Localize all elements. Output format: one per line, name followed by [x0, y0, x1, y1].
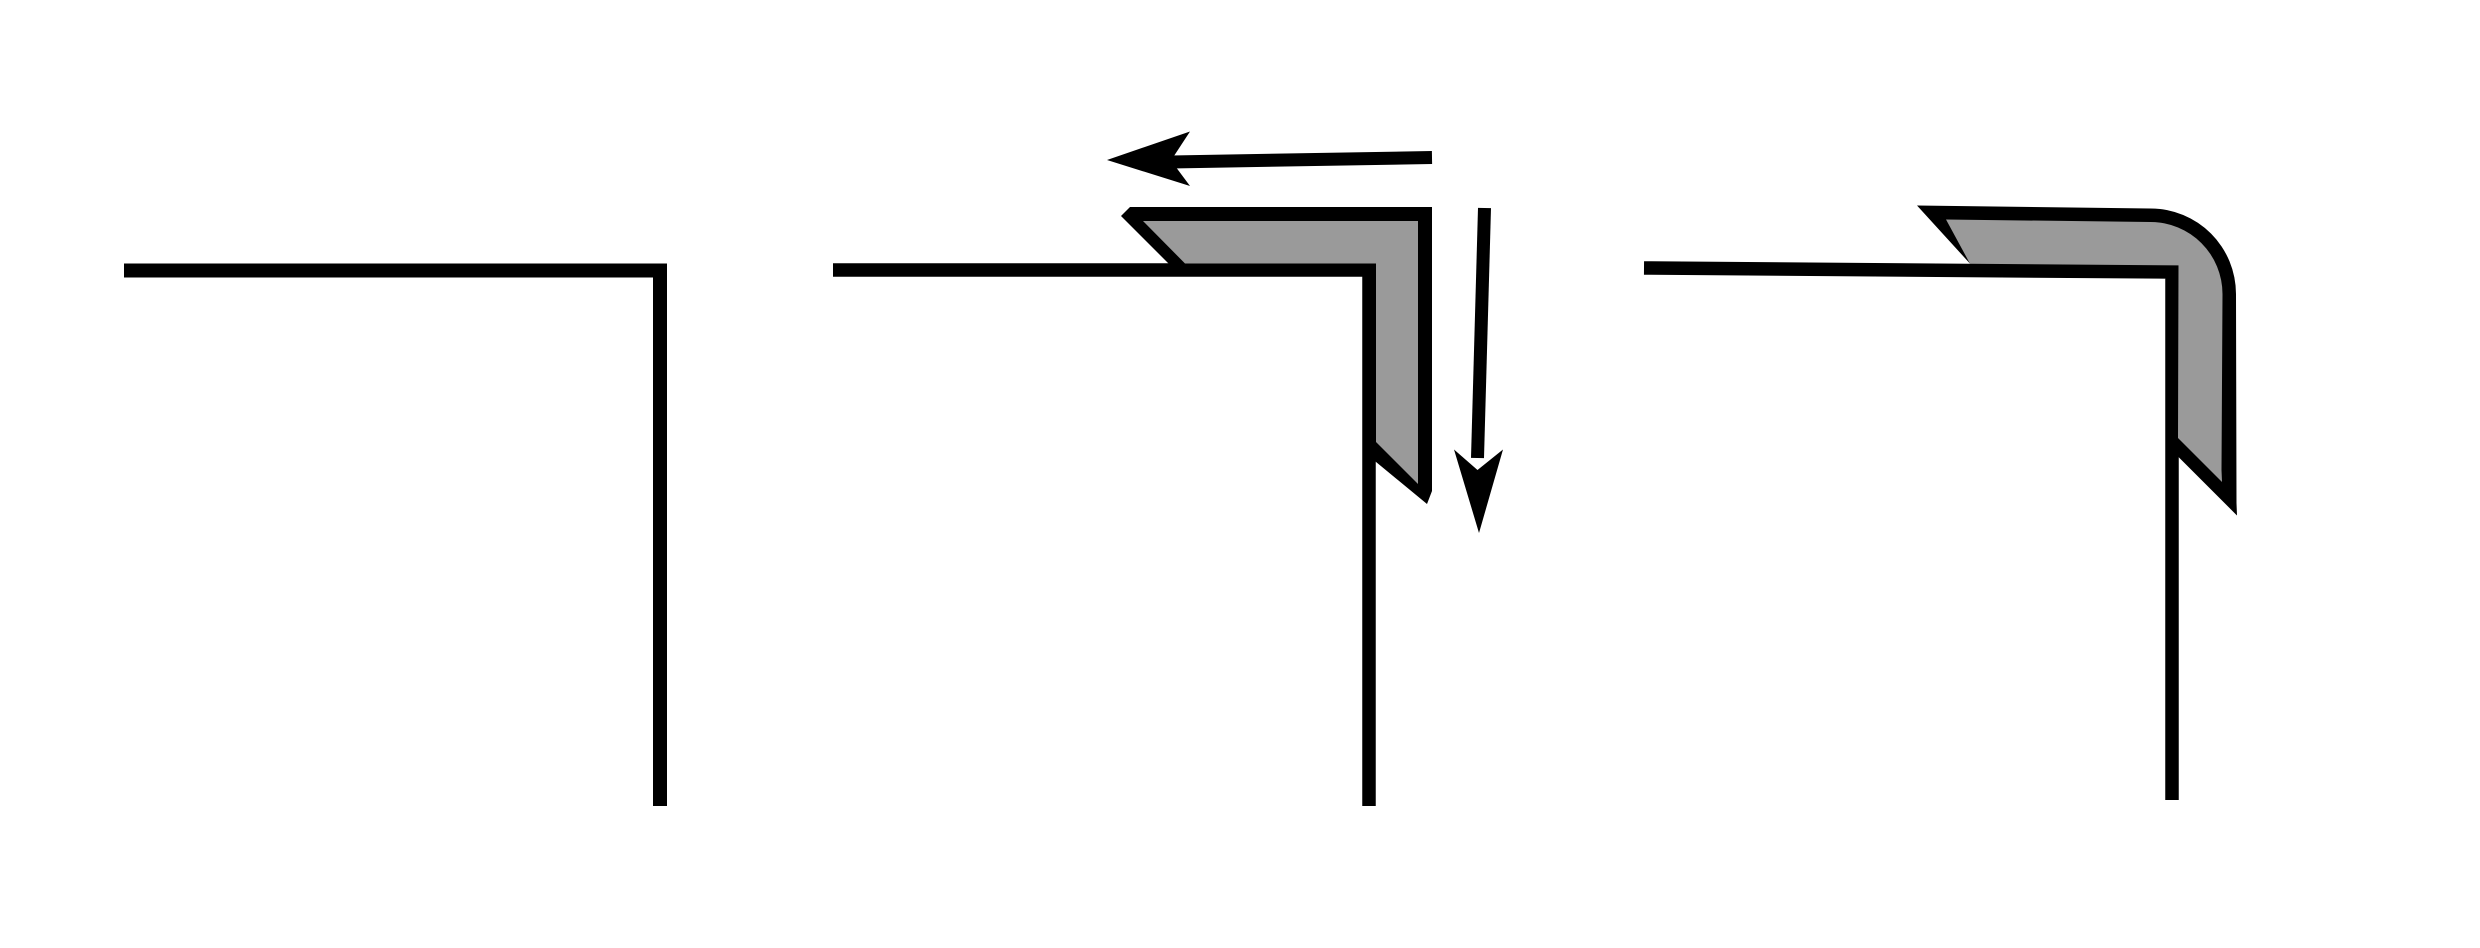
wire [833, 270, 1369, 806]
panel 1 bare table corner [124, 271, 660, 807]
panel 3 fitted corner-guard piece [1917, 206, 2237, 516]
panel 2 table corner [833, 270, 1369, 806]
wire [1644, 268, 2172, 800]
wire [124, 271, 660, 807]
panel 2 down arrow [1454, 208, 1503, 533]
gray fill of fitted piece [1946, 220, 2223, 483]
panel 3 table corner [1644, 268, 2172, 800]
panel 2 corner-guard piece [1121, 207, 1432, 504]
gray fill of piece [1143, 221, 1418, 484]
panel 2 left arrow [1107, 132, 1432, 187]
